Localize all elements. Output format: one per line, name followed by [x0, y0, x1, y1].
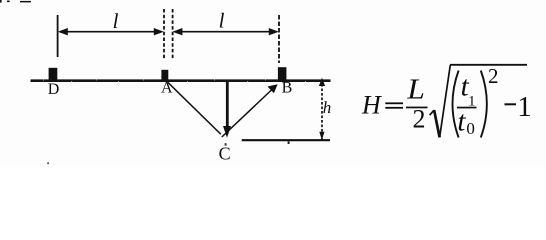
- svg-text:2: 2: [413, 105, 426, 134]
- svg-text:2: 2: [488, 64, 499, 88]
- svg-text:C: C: [219, 144, 231, 164]
- svg-text:l: l: [219, 9, 225, 33]
- svg-text:h: h: [323, 98, 332, 117]
- svg-text:1: 1: [517, 91, 532, 123]
- svg-text:H: H: [361, 91, 382, 120]
- svg-text:0: 0: [466, 119, 475, 138]
- svg-text:L: L: [406, 75, 425, 106]
- svg-text:A: A: [161, 80, 173, 97]
- svg-text:t: t: [457, 106, 466, 138]
- svg-text:B: B: [282, 80, 293, 97]
- svg-text:l: l: [113, 9, 119, 33]
- svg-text:D: D: [48, 81, 60, 98]
